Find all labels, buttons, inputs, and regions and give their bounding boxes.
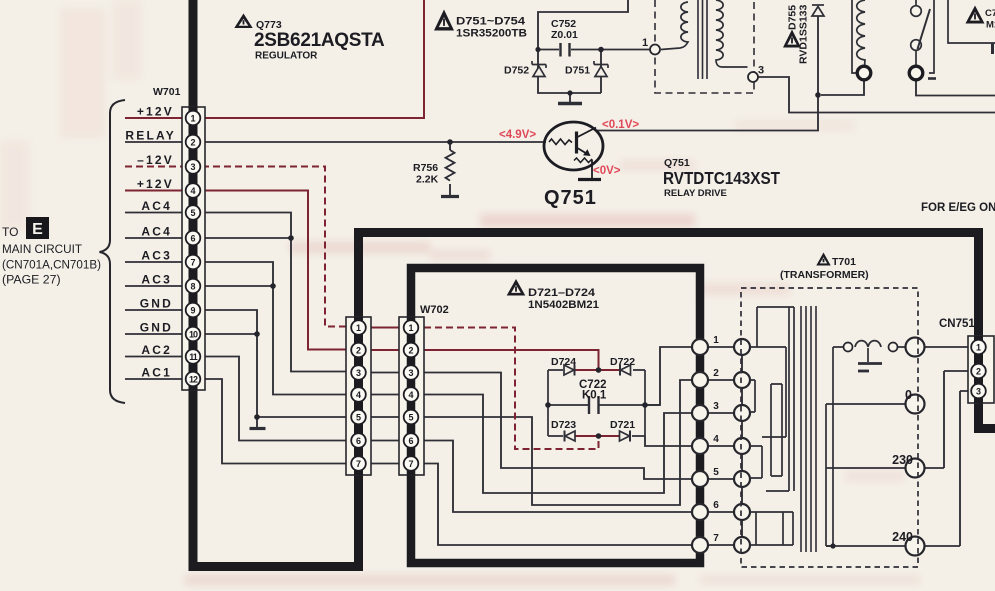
svg-text:Z0.01: Z0.01: [551, 29, 578, 41]
svg-text:4: 4: [356, 390, 361, 400]
wire 240V tap to CN751 pin3: [826, 391, 973, 546]
node 1 terminal: [650, 45, 660, 55]
svg-text:AC4: AC4: [141, 199, 172, 213]
svg-text:AC4: AC4: [141, 225, 172, 239]
svg-text:RVD1SS133: RVD1SS133: [798, 4, 810, 64]
svg-text:12: 12: [189, 375, 198, 385]
wire W701 pin12 AC1 to conn A pin7: [200, 379, 350, 464]
svg-text:REGULATOR: REGULATOR: [255, 51, 318, 62]
svg-text:4: 4: [190, 186, 195, 196]
warning triangle D751-D754: [434, 10, 454, 31]
transistor Q751: [544, 122, 603, 180]
wire conn B pin6 to xfmr node 6: [424, 441, 693, 513]
pins CN751 1-3: [971, 340, 986, 355]
svg-text:3: 3: [976, 387, 981, 397]
svg-text:<0V>: <0V>: [593, 165, 621, 177]
pins W701 1-12: [186, 111, 201, 126]
T701 primary winding: [750, 307, 794, 545]
wire W701 label stubs: [125, 213, 186, 380]
svg-text:5: 5: [713, 467, 719, 478]
diode D721: [620, 431, 630, 441]
wire Q751 collector to D755/relay junction: [597, 16, 818, 131]
wire bridge maroon rail segments: [575, 370, 621, 436]
T701 core: [801, 306, 816, 552]
svg-text:2: 2: [190, 138, 195, 148]
wire +12V pin4 maroon to conn A pin2: [125, 191, 350, 350]
wire conn B pin5 to xfmr node 2: [424, 380, 693, 505]
svg-text:RELAY: RELAY: [125, 129, 176, 143]
thermal protector box top right: [948, 0, 995, 43]
svg-text:6: 6: [356, 436, 361, 446]
resistor R756: [446, 150, 455, 181]
svg-text:D722: D722: [610, 356, 635, 368]
svg-text:2: 2: [408, 346, 413, 356]
transformer top: primary coil: [661, 2, 688, 50]
wire relay left contact to junction: [821, 80, 864, 95]
T701 secondary winding: [826, 341, 882, 546]
svg-text:D723: D723: [551, 419, 576, 431]
svg-text:1SR35200TB: 1SR35200TB: [456, 28, 527, 40]
svg-text:D724: D724: [551, 356, 576, 368]
diode D755: [812, 5, 824, 16]
svg-text:–12V: –12V: [137, 153, 174, 167]
wire 0V tap: [826, 403, 906, 405]
svg-text:R756: R756: [413, 162, 438, 174]
svg-text:+12V: +12V: [137, 105, 174, 119]
ground symbol under C752 rail: [569, 93, 571, 102]
pin numbers connector A: [356, 323, 361, 469]
diode D722: [621, 365, 631, 375]
svg-text:2: 2: [713, 368, 719, 379]
connector W702 body: [399, 317, 424, 475]
pin numbers W701: [189, 114, 198, 385]
minus mark: [928, 77, 936, 80]
svg-text:7: 7: [356, 459, 361, 469]
svg-text:AC3: AC3: [141, 249, 172, 263]
svg-text:GND: GND: [140, 297, 173, 311]
transformer top: secondary coil: [716, 0, 748, 67]
wire conn B pin1 maroon dashed to bridge bottom mid: [424, 328, 599, 450]
node 3 terminal: [748, 72, 758, 82]
wire bridge bottom to xfmr node 4: [645, 436, 693, 446]
svg-text:<0.1V>: <0.1V>: [602, 119, 639, 131]
capacitor C752: [561, 43, 570, 57]
wire 230V tap to CN751 pin2: [826, 371, 973, 468]
ground symbol on GND wire: [256, 417, 258, 427]
connector CN751 body: [968, 336, 994, 403]
xfmr node numbers: [713, 335, 719, 544]
svg-text:RELAY DRIVE: RELAY DRIVE: [664, 188, 727, 199]
transformer top: core: [698, 0, 707, 79]
svg-text:D751~D754: D751~D754: [456, 16, 526, 28]
node circles on W702 bar rows 1-7: [692, 339, 708, 355]
svg-text:(PAGE 27): (PAGE 27): [2, 273, 61, 287]
svg-text:5: 5: [356, 413, 361, 423]
svg-text:CN751: CN751: [939, 318, 975, 330]
tap circles on T701 right edge: [906, 338, 925, 357]
svg-text:10: 10: [189, 330, 198, 340]
wire conn A to B links rows 1-2: [368, 328, 401, 351]
relay RY751 body and coil: [852, 0, 934, 73]
thick harness wire: W701 bus, bottom run, connector A bus, top bus to CN751, exit right: [193, 0, 995, 567]
svg-text:230: 230: [892, 453, 913, 467]
svg-text:2.2K: 2.2K: [416, 174, 439, 186]
wire R756 to ground: [449, 142, 451, 195]
svg-text:W701: W701: [153, 86, 181, 98]
wire W701 pin5/pin6 AC4 to conn A pin3: [200, 213, 350, 372]
svg-text:AC2: AC2: [141, 343, 172, 357]
diode D723: [565, 431, 575, 441]
wire bridge cap row to xfmr node 1: [645, 347, 693, 405]
svg-text:TO: TO: [2, 225, 18, 239]
svg-text:5: 5: [408, 413, 413, 423]
svg-text:1: 1: [190, 114, 195, 124]
wire conn B pin2 maroon to bridge top mid: [424, 350, 599, 369]
svg-text:5: 5: [190, 208, 195, 218]
svg-text:1: 1: [408, 323, 413, 333]
relay contact rings: [857, 66, 871, 80]
wire W701 pin9/pin10 GND to conn A pin5: [200, 310, 350, 417]
svg-text:D721: D721: [610, 419, 635, 431]
svg-text:7: 7: [408, 459, 413, 469]
svg-text:<4.9V>: <4.9V>: [499, 129, 536, 141]
wire conn B pin3 to xfmr node 5: [424, 373, 693, 480]
connector A body: [346, 317, 371, 475]
svg-text:1N5402BM21: 1N5402BM21: [528, 299, 599, 311]
svg-text:3: 3: [190, 162, 195, 172]
connector W701 body: [182, 107, 205, 390]
svg-text:K0.1: K0.1: [582, 390, 607, 402]
svg-text:240: 240: [892, 530, 913, 544]
node circles on T701 left edge rows 1-7: [734, 339, 750, 355]
wire relay right contact to right edge: [916, 80, 995, 96]
pin numbers connector W702: [408, 323, 413, 469]
warning triangle Q773: [234, 14, 252, 29]
wire W701 pin7/pin8 AC3 to conn A pin4: [200, 262, 350, 395]
wire transformer row links: [707, 347, 735, 545]
brace to main circuit: [100, 100, 126, 403]
svg-text:1: 1: [642, 37, 648, 49]
svg-text:AC1: AC1: [141, 366, 172, 380]
svg-text:7: 7: [713, 533, 719, 544]
transformer top: dashed box: [655, 0, 754, 93]
svg-text:D721–D724: D721–D724: [528, 287, 596, 299]
thick harness loop: W702 bus rectangle with node bar: [411, 268, 700, 563]
svg-text:0: 0: [905, 388, 912, 402]
pins connector W702 1-7: [404, 320, 419, 335]
svg-text:1: 1: [713, 335, 719, 346]
warning triangle T701: [816, 253, 830, 266]
svg-text:3: 3: [356, 368, 361, 378]
pins connector A 1-7: [351, 320, 366, 335]
wire +12V pin1 maroon up to regulator: [125, 0, 424, 118]
svg-text:4: 4: [408, 390, 413, 400]
pin numbers CN751: [976, 343, 981, 397]
svg-text:D751: D751: [565, 65, 590, 77]
wire node chain vertical: [741, 340, 743, 552]
svg-text:C756: C756: [985, 8, 995, 19]
wire conn B pin4 to xfmr node 3: [424, 395, 693, 494]
svg-text:6: 6: [408, 436, 413, 446]
diode D751: [594, 61, 608, 77]
wire -12V pin3 maroon dashed to conn A pin1: [125, 167, 350, 327]
svg-text:7: 7: [190, 258, 195, 268]
svg-text:6: 6: [190, 234, 195, 244]
svg-text:M10: M10: [986, 20, 995, 31]
svg-text:2: 2: [976, 367, 981, 377]
svg-text:2SB621AQSTA: 2SB621AQSTA: [254, 30, 385, 51]
wire top sub-circuit rails: [538, 0, 650, 93]
warning triangle D755: [783, 30, 801, 48]
ghost bleed-through marks (decorative scan artifacts): [480, 214, 695, 227]
svg-text:GND: GND: [140, 321, 173, 335]
svg-text:(TRANSFORMER): (TRANSFORMER): [780, 269, 869, 281]
bridge rails: [548, 370, 660, 436]
svg-text:11: 11: [189, 352, 198, 362]
warning triangle D721-D724: [507, 279, 526, 296]
wire conn B pin7 to xfmr node 7: [424, 464, 693, 546]
diode D724: [564, 365, 574, 375]
svg-text:(CN701A,CN701B): (CN701A,CN701B): [2, 258, 101, 272]
svg-text:3: 3: [758, 65, 764, 77]
svg-text:4: 4: [713, 434, 719, 445]
svg-text:MAIN CIRCUIT: MAIN CIRCUIT: [2, 242, 82, 256]
svg-text:RVTDTC143XST: RVTDTC143XST: [663, 168, 780, 188]
relay switch: [915, 0, 917, 6]
wire secondary top to CN751 pin1: [833, 346, 973, 348]
svg-text:Q751: Q751: [544, 187, 597, 209]
svg-text:9: 9: [190, 306, 195, 316]
svg-text:8: 8: [190, 282, 195, 292]
svg-text:1: 1: [356, 323, 361, 333]
secondary link terminals: [844, 343, 853, 352]
svg-text:1: 1: [976, 343, 981, 353]
svg-text:E: E: [32, 221, 43, 238]
wire xfmr node3 to right edge: [759, 77, 995, 113]
E badge: [26, 217, 49, 239]
svg-text:T701: T701: [832, 256, 856, 268]
warning triangle C756: [966, 6, 985, 24]
labels W701 pins: [125, 105, 176, 380]
wire conn A to conn B links rows 3-7: [368, 373, 401, 464]
svg-text:FOR E/EG ONL: FOR E/EG ONL: [921, 202, 995, 214]
svg-text:D752: D752: [504, 65, 529, 77]
svg-text:W702: W702: [420, 304, 449, 316]
svg-text:3: 3: [408, 368, 413, 378]
diode D752: [532, 61, 546, 77]
svg-text:+12V: +12V: [137, 177, 174, 191]
wire W701 pin11 AC2 to conn A pin6: [200, 357, 350, 441]
wire RELAY pin2 to Q751 base: [125, 141, 546, 143]
svg-text:AC3: AC3: [141, 273, 172, 287]
svg-text:6: 6: [713, 500, 719, 511]
svg-text:2: 2: [356, 346, 361, 356]
svg-text:3: 3: [713, 401, 719, 412]
transformer T701 dashed box: [741, 288, 918, 567]
